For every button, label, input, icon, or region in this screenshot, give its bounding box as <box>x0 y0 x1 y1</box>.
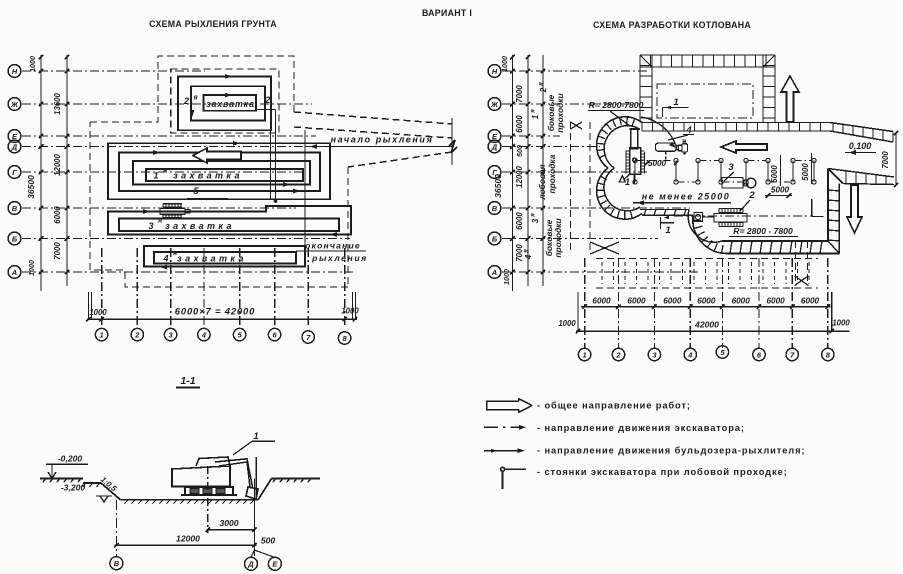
column line 5 right scheme <box>721 258 723 348</box>
section vertical boundary right <box>253 479 255 556</box>
left boundary double vertical near column 1 <box>88 292 90 319</box>
svg-text:Д: Д <box>491 142 498 151</box>
axis В left row line <box>22 207 296 209</box>
svg-text:6000: 6000 <box>766 297 785 306</box>
axis Ж right circle <box>488 98 501 111</box>
svg-text:R= 2800-7800: R= 2800-7800 <box>589 100 644 110</box>
svg-text:6000: 6000 <box>627 297 646 306</box>
column circle 5 right scheme <box>716 346 728 358</box>
pit left C-curve inner lower lobe <box>604 168 640 211</box>
pit right corner top miter <box>828 169 843 184</box>
svg-text:5000: 5000 <box>770 165 779 183</box>
svg-text:36500: 36500 <box>493 174 503 198</box>
axis Б left row line <box>22 238 350 240</box>
column circle 8 right scheme <box>822 348 834 360</box>
column line 2 right scheme <box>618 258 620 348</box>
svg-text:7000: 7000 <box>881 151 890 169</box>
excavator 4 link <box>676 145 679 147</box>
svg-text:1-1: 1-1 <box>180 375 195 387</box>
tick axis А right dim lines <box>510 270 515 274</box>
ne menee dimension line with arrow <box>633 202 731 204</box>
svg-text:окончание: окончание <box>305 241 361 251</box>
connector line from zahvatka2 down (line a) <box>270 110 272 200</box>
ripped zone dashed vertical pair left <box>570 122 572 254</box>
excavator body section view <box>172 466 230 487</box>
ripped zone dashed comb bottom line <box>596 287 818 289</box>
tick axis Г right dim lines <box>510 170 515 174</box>
svg-text:12000: 12000 <box>176 534 200 544</box>
axis Ж left circle <box>8 98 21 111</box>
svg-text:проходка: проходка <box>547 154 557 193</box>
label 5 underline <box>187 198 228 200</box>
excavator box at station bottom <box>694 213 703 222</box>
column line 7 right scheme <box>791 258 793 348</box>
column line 4 right scheme <box>689 258 691 348</box>
tick axis Б right dim lines <box>510 236 515 241</box>
pit bottom band lines <box>722 240 828 242</box>
section dim 3000 line <box>208 529 255 531</box>
svg-text:6000: 6000 <box>515 115 524 133</box>
tick axis А on dim lines <box>39 270 43 274</box>
svg-text:500: 500 <box>515 145 524 157</box>
axis D solid extension line under nachalo label <box>305 146 452 148</box>
svg-text:Б: Б <box>12 234 18 243</box>
column line 1 left scheme <box>101 248 103 328</box>
svg-text:Ж: Ж <box>490 100 499 109</box>
zahvatka 1 second rect <box>119 153 320 192</box>
svg-text:СХЕМА РАЗРАБОТКИ КОТЛОВАНА: СХЕМА РАЗРАБОТКИ КОТЛОВАНА <box>593 20 751 30</box>
tick top boundary dims <box>39 55 43 59</box>
tick axis Б on dim lines <box>39 236 43 241</box>
svg-text:я: я <box>162 167 167 174</box>
column circle 2 left scheme <box>131 328 143 340</box>
svg-text:3: 3 <box>531 218 540 223</box>
pit left C-curve inner upper lobe <box>604 126 640 168</box>
svg-text:В: В <box>12 204 18 213</box>
svg-text:3000: 3000 <box>219 518 238 528</box>
ripping zone dashed boundary left part <box>90 56 294 122</box>
column line 7 left scheme <box>307 248 309 328</box>
axis Е left circle <box>8 130 21 143</box>
svg-text:6000: 6000 <box>801 297 820 306</box>
upper block inner dash-dot rect <box>657 84 753 118</box>
column line 1 right scheme <box>584 258 586 348</box>
axis Б right circle <box>488 232 501 245</box>
tick axis Е right dim lines <box>510 134 515 138</box>
section dim 12000 line <box>115 544 257 546</box>
svg-text:захватка: захватка <box>165 221 235 231</box>
svg-text:захватка: захватка <box>173 171 243 181</box>
svg-text:Д: Д <box>11 142 18 151</box>
pit left C-curve outer lower lobe <box>597 168 642 219</box>
section pit bottom line <box>121 499 259 501</box>
svg-text:А: А <box>11 268 17 277</box>
svg-text:1: 1 <box>100 330 104 339</box>
section vertical boundary left <box>115 500 117 556</box>
svg-text:5000: 5000 <box>648 159 667 168</box>
svg-text:5: 5 <box>193 186 199 197</box>
tick axis Е on dim lines <box>39 134 43 138</box>
upper block corner miters <box>640 55 652 67</box>
axis Г left circle <box>8 166 21 179</box>
svg-text:2: 2 <box>539 87 548 93</box>
zahvatka 2 inner dashed rect <box>171 69 279 133</box>
label okonchanie ryhleniya line <box>296 250 366 252</box>
svg-text:1: 1 <box>665 225 670 236</box>
excavator 1 leg line <box>623 174 629 180</box>
column circle 3 right scheme <box>648 348 660 360</box>
legend line bulldozer movement <box>484 450 521 452</box>
machine 3 symbol <box>722 178 743 189</box>
axis В left circle <box>8 202 21 215</box>
column line 3 right scheme <box>653 258 655 348</box>
ripped zone comb teeth <box>601 262 603 284</box>
svg-text:5000: 5000 <box>801 163 810 181</box>
ripping zone dashed channel bottom line <box>294 127 452 138</box>
svg-text:я: я <box>531 213 537 218</box>
connector line b with junction dot <box>275 110 277 202</box>
svg-text:СХЕМА РЫХЛЕНИЯ ГРУНТА: СХЕМА РЫХЛЕНИЯ ГРУНТА <box>149 19 277 29</box>
column circle 2 right scheme <box>612 348 624 360</box>
big outline arrow up <box>781 76 799 122</box>
svg-text:1000: 1000 <box>558 319 576 328</box>
column line 8 right scheme <box>827 258 829 348</box>
excavator 1 link down to chain node <box>633 174 635 183</box>
svg-text:1000: 1000 <box>28 56 37 72</box>
zahvatka 3 outer rect <box>108 206 351 235</box>
axis А left circle <box>8 266 21 279</box>
big outline arrow left inside pit <box>721 141 767 153</box>
svg-text:В: В <box>492 204 498 213</box>
svg-text:-3,200: -3,200 <box>61 483 86 493</box>
upper block left slope band <box>639 55 641 123</box>
column circle 6 left scheme <box>268 328 280 340</box>
column circle 4 left scheme <box>198 328 210 340</box>
ripping zone dashed bottom boundary <box>90 122 348 287</box>
right dim vertical lines <box>512 55 514 291</box>
svg-text:3: 3 <box>148 221 153 231</box>
axis Г right circle <box>488 166 501 179</box>
column line 4 left scheme <box>203 248 205 328</box>
excavator 4 bucket square <box>682 144 688 152</box>
direction arrows on zahvatka 1 path <box>233 141 240 146</box>
svg-text:1: 1 <box>153 171 158 181</box>
section axis circle Д <box>251 550 254 558</box>
column circle 7 right scheme <box>786 348 798 360</box>
zahvatka 1 text rect <box>146 169 303 181</box>
svg-text:36500: 36500 <box>26 175 36 199</box>
column circle 4 right scheme <box>684 348 696 360</box>
zahvatka 2 text rect <box>204 95 256 111</box>
right edge dim 7000 line <box>895 133 897 185</box>
svg-text:0,100: 0,100 <box>849 141 872 151</box>
zahvatka 1 third rect <box>133 161 310 185</box>
axis Д right row line <box>502 146 600 148</box>
svg-text:я: я <box>192 95 197 102</box>
section bench line <box>83 482 101 484</box>
column line 5 left scheme <box>239 248 241 328</box>
axis Д right circle <box>488 140 501 153</box>
pit top slope band flat part <box>642 122 830 124</box>
svg-text:7000: 7000 <box>53 242 62 260</box>
pit bottom right miter <box>828 241 839 254</box>
station chain right scheme <box>634 161 636 183</box>
break mark at right edge of channel <box>449 140 457 153</box>
svg-text:Г: Г <box>12 168 17 177</box>
svg-text:Б: Б <box>492 234 498 243</box>
svg-text:не менее 25000: не менее 25000 <box>642 192 731 202</box>
section axis circle Е <box>254 550 275 558</box>
axis А left row line <box>22 271 353 273</box>
axis Д left row line <box>22 146 305 148</box>
svg-text:R= 2800 - 7800: R= 2800 - 7800 <box>733 226 793 236</box>
svg-text:6000: 6000 <box>592 297 611 306</box>
axis Д left circle <box>8 140 21 153</box>
tick axis Д right dim lines <box>510 144 515 149</box>
tick axis В right dim lines <box>510 206 515 210</box>
pit lower-left lobe curve inner <box>688 210 722 243</box>
svg-text:Д: Д <box>247 560 254 569</box>
svg-text:захватка: захватка <box>206 99 255 109</box>
ripping zone dashed channel top line <box>294 112 452 124</box>
excavator bucket section view <box>246 487 258 499</box>
axis Г right row line <box>502 171 648 173</box>
svg-text:проходки: проходки <box>553 218 563 257</box>
ripped zone corner X bottom <box>590 242 619 254</box>
svg-text:6000×7 = 42000: 6000×7 = 42000 <box>175 307 255 318</box>
svg-text:6000: 6000 <box>515 212 524 230</box>
tick axis В on dim lines <box>39 206 43 210</box>
svg-text:1: 1 <box>673 97 678 108</box>
svg-text:1000: 1000 <box>502 269 511 285</box>
svg-text:2: 2 <box>615 350 621 359</box>
ripped zone corner X right <box>795 276 809 286</box>
excavator tracks section view <box>185 487 233 495</box>
pit ramp lower edge band <box>828 169 894 178</box>
svg-text:я: я <box>531 109 537 114</box>
svg-text:7000: 7000 <box>515 85 524 103</box>
section elevation -3.200 arrow mark <box>96 495 112 497</box>
zahvatka 4 text rect <box>154 252 296 264</box>
right scheme boundary verticals at dim rows <box>577 292 579 331</box>
pit lower lobe radial hatch <box>722 245 723 253</box>
axis Б left circle <box>8 232 21 245</box>
svg-text:ВАРИАНТ I: ВАРИАНТ I <box>422 8 472 18</box>
section left slope line <box>101 483 121 500</box>
svg-text:1000: 1000 <box>341 307 359 316</box>
section right ground line <box>272 478 321 480</box>
section axis circle В <box>110 557 123 570</box>
section elevation -0.200 mark <box>46 463 88 465</box>
pit top slope band sloped right part <box>830 123 893 132</box>
tick axis Н on dim lines <box>39 69 43 73</box>
column line 8 left scheme <box>344 248 346 328</box>
axis Ж right row line <box>502 103 640 105</box>
svg-text:3: 3 <box>728 162 734 173</box>
svg-text:1: 1 <box>253 431 258 442</box>
axis Е right row line <box>502 135 560 137</box>
svg-text:6000: 6000 <box>732 297 751 306</box>
svg-text:2: 2 <box>134 330 140 339</box>
axis Н right row line <box>502 70 648 72</box>
svg-text:1000: 1000 <box>832 319 850 328</box>
svg-text:- направление движения экска: - направление движения экскаватора; <box>537 423 745 433</box>
underline of R label bottom <box>729 236 798 238</box>
section center dashed line of excavator <box>207 466 209 533</box>
column line 3 left scheme <box>170 248 172 328</box>
column circle 6 right scheme <box>753 348 765 360</box>
column circle 8 left scheme <box>338 332 350 344</box>
zahvatka 2 middle rect <box>191 86 265 120</box>
svg-text:12000: 12000 <box>515 165 524 187</box>
direction arrows on zahvatka 3 path <box>143 209 150 214</box>
ripped zone dashed comb top line <box>596 258 818 260</box>
svg-text:А: А <box>491 268 497 277</box>
svg-text:4: 4 <box>201 330 207 339</box>
svg-text:5000: 5000 <box>771 186 790 195</box>
dash-dot path line lower <box>674 215 813 217</box>
svg-text:проходки: проходки <box>555 93 565 132</box>
svg-text:6000: 6000 <box>663 297 682 306</box>
pit right slope band vertical inner <box>827 169 829 242</box>
svg-text:4: 4 <box>162 254 168 264</box>
connector line to zahvatka4 <box>304 130 306 264</box>
column circle 7 left scheme <box>302 331 314 343</box>
dash link machine4 to chain <box>665 152 667 161</box>
excavator 4 top marks <box>683 139 687 141</box>
excavator cab section view <box>196 457 230 466</box>
column line 6 left scheme <box>274 248 276 328</box>
pit left C-curve outer upper lobe <box>597 117 642 168</box>
zahvatka 3 text rect <box>119 219 339 232</box>
axis А right row line <box>502 271 700 273</box>
legend dash-dot line excavator movement <box>484 426 521 428</box>
axis А right circle <box>488 266 501 279</box>
underline of R label top <box>588 110 644 112</box>
svg-text:- стоянки экскаватора при л: - стоянки экскаватора при лобовой проход… <box>537 467 788 477</box>
pit left C radial hatch lower lobe <box>600 176 606 180</box>
tick axis Н right dim lines <box>510 69 515 73</box>
right scheme dim line 42000 row <box>576 330 850 332</box>
right scheme dim line 6000 row <box>581 306 831 308</box>
svg-text:- общее направление работ;: - общее направление работ; <box>537 401 691 411</box>
svg-text:1: 1 <box>531 114 540 119</box>
svg-text:4: 4 <box>687 350 693 359</box>
zahvatka 4 outer rect <box>144 246 305 267</box>
station L marker near right band <box>811 199 813 217</box>
axis Е right circle <box>488 130 501 143</box>
svg-text:Н: Н <box>12 67 18 76</box>
svg-text:1000: 1000 <box>27 260 36 276</box>
legend arrow general direction of works <box>487 399 533 413</box>
svg-text:1: 1 <box>625 177 630 187</box>
axis В right row line <box>502 207 690 209</box>
section title underline <box>176 387 200 389</box>
label 0.100 underline with arrow <box>845 152 876 154</box>
axis Ж left row line <box>22 103 312 105</box>
pit bottom edge left section band <box>640 209 689 211</box>
pit left C radial hatch upper lobe <box>632 119 635 126</box>
bulldozer-ripper symbol left scheme <box>160 208 185 214</box>
svg-text:42000: 42000 <box>694 320 719 330</box>
svg-text:6000: 6000 <box>697 297 716 306</box>
radius sweep arc of excavator 1 <box>641 117 677 149</box>
axis Б right row line <box>502 238 658 240</box>
tick axis Г on dim lines <box>39 170 43 174</box>
section right slope line <box>258 479 272 500</box>
svg-text:начало рыхления: начало рыхления <box>331 135 434 145</box>
column line 2 left scheme <box>136 248 138 328</box>
zahvatka 2 exit line to connectors <box>256 109 276 111</box>
excavator 1 triangle mark <box>619 176 625 182</box>
section wall line near bucket <box>255 457 257 500</box>
axis Г left row line <box>22 171 303 173</box>
tick axis Д on dim lines <box>39 144 43 149</box>
svg-text:Н: Н <box>492 67 498 76</box>
svg-text:я: я <box>539 82 545 87</box>
excavator 1 symbol mast <box>631 129 638 149</box>
svg-text:я: я <box>157 218 162 225</box>
svg-text:2: 2 <box>748 190 755 201</box>
upper block right slope band <box>762 55 764 123</box>
ripping zone dashed return diagonal <box>348 152 452 167</box>
ripped zone right edge dashed verticals <box>795 241 797 284</box>
svg-text:я: я <box>172 250 177 257</box>
leader from R label to machine 4 <box>610 111 630 126</box>
bulldozer-ripper 2 symbol <box>718 209 720 213</box>
column circle 1 right scheme <box>578 348 590 360</box>
svg-text:лобовая: лобовая <box>537 164 547 200</box>
excavator leader label 1 <box>233 441 252 455</box>
pit top band right end vertical <box>892 132 894 143</box>
upper block top slope band <box>640 54 775 56</box>
excavator 4 symbol body <box>655 143 676 151</box>
left bottom dimension line <box>87 318 357 320</box>
svg-text:рыхления: рыхления <box>311 253 368 263</box>
excavator boom section view <box>215 459 253 487</box>
tick axis Ж on dim lines <box>39 102 43 106</box>
axis Н left row line <box>22 70 205 72</box>
left dim vertical line inner <box>66 55 68 286</box>
left dim vertical line outer <box>40 55 42 291</box>
svg-text:-0,200: -0,200 <box>58 454 83 464</box>
svg-text:я: я <box>524 249 530 254</box>
pit right slope band vertical outer <box>838 184 840 254</box>
ripped zone corner X top <box>571 122 583 129</box>
big outline arrow down right side <box>847 185 862 233</box>
svg-text:захватка: захватка <box>177 254 247 264</box>
legend excavator station symbol <box>501 467 505 471</box>
column circle 1 left scheme <box>95 328 107 340</box>
pit right band hatch <box>828 190 839 191</box>
column line 6 right scheme <box>758 258 760 348</box>
station marker bottom <box>660 217 662 229</box>
axis Е left row line <box>22 135 316 137</box>
excavator 1 body <box>630 148 641 174</box>
zahvatka 2 outer rect <box>178 76 271 130</box>
pit lower-left lobe curve outer <box>693 215 728 253</box>
axis Н right circle <box>488 65 501 78</box>
column circle 3 left scheme <box>164 328 176 340</box>
svg-text:12000: 12000 <box>53 153 62 175</box>
svg-text:1: 1 <box>583 350 587 359</box>
svg-text:Ж: Ж <box>10 100 19 109</box>
svg-text:1000: 1000 <box>500 56 509 72</box>
ripping zone dashed right boundary <box>347 167 349 287</box>
svg-text:500: 500 <box>261 536 276 546</box>
svg-text:2: 2 <box>264 95 270 105</box>
axis Н left circle <box>8 65 21 78</box>
